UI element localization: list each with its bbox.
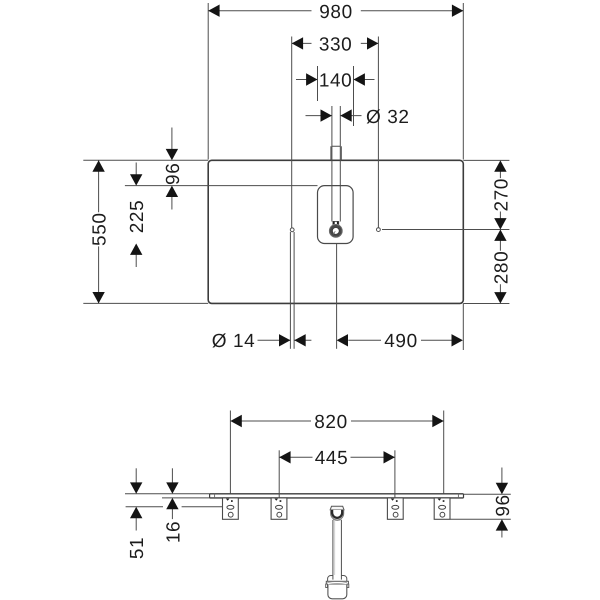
dim 96 top-left tail bottom	[171, 196, 173, 209]
basin cut-out	[318, 186, 354, 244]
dim 225 arrow bottom	[130, 244, 142, 255]
drain tab	[333, 222, 339, 226]
plate right end tick	[457, 494, 459, 498]
ext line basin top to left	[125, 185, 318, 187]
dim 96 top-left arrow bottom	[166, 186, 178, 197]
pipe coupling	[331, 146, 341, 160]
right edge extension down	[462, 304, 464, 351]
trap tab left	[326, 584, 328, 587]
dim 330 arrow right	[367, 37, 378, 49]
dim 140 arrow right	[354, 73, 365, 85]
dim 225 tail top	[135, 163, 137, 176]
svg-text:Ø 14: Ø 14	[212, 331, 256, 352]
dim 16 arrow bottom	[166, 498, 178, 509]
svg-text:96: 96	[163, 163, 184, 185]
dim D14 arrow left	[279, 334, 290, 346]
svg-text:270: 270	[491, 178, 512, 212]
countertop top-view outline	[208, 160, 463, 303]
supply pipe right line	[339, 106, 341, 222]
svg-text:16: 16	[164, 521, 185, 543]
ext line drain level to right	[382, 229, 509, 231]
dim D14 extension left	[289, 232, 291, 349]
bracket 4	[434, 498, 450, 519]
trap rim band	[326, 581, 348, 585]
dim 96 right tail top	[501, 468, 503, 484]
dim 820 extension right	[443, 411, 445, 494]
side-view plate top edge	[210, 493, 464, 495]
ext line countertop bottom to left	[83, 302, 208, 304]
drain inner hole	[332, 227, 339, 234]
dim 96 top-left tail top	[171, 128, 173, 150]
dim D32 tail right	[340, 115, 361, 117]
bracket 3	[387, 498, 403, 519]
dim 820 line	[230, 420, 443, 422]
drain flange bar	[330, 506, 344, 510]
dim 445 extension right	[394, 450, 396, 497]
supply pipe left line	[331, 106, 333, 222]
svg-text:330: 330	[319, 35, 353, 56]
plate right end cap	[463, 494, 465, 498]
svg-text:820: 820	[314, 412, 348, 433]
drain lever slot	[333, 231, 335, 234]
svg-text:140: 140	[319, 71, 353, 92]
dim 140 tail left	[296, 79, 318, 81]
drain outer circle	[329, 225, 342, 238]
trap tab right	[347, 584, 349, 587]
dim 330 extension left	[291, 37, 293, 228]
dim D14 tail left	[258, 339, 291, 341]
drain ring	[331, 226, 341, 236]
dim 820 extension left	[229, 411, 231, 494]
dim 140 extension right	[353, 66, 355, 126]
dim 550 arrow top	[92, 160, 104, 171]
dim 270-280 line	[499, 171, 501, 293]
dim 445 arrow right	[384, 451, 395, 463]
dim D32 arrow right	[340, 109, 351, 121]
dim D14 extension right	[293, 232, 295, 349]
hole D14	[290, 228, 294, 232]
dim 96 right arrow top	[496, 483, 508, 494]
drain pipe left	[332, 520, 334, 580]
plate left end tick	[214, 494, 216, 498]
plate left end cap	[209, 494, 211, 498]
drain clamp lip	[333, 519, 342, 520]
drain clamp outer	[331, 510, 344, 520]
dim 980 arrow right	[452, 5, 463, 17]
side-view plate bottom edge	[210, 497, 464, 499]
svg-text:550: 550	[90, 212, 111, 246]
dim 140 arrow left	[306, 73, 317, 85]
dim 16 tail top	[171, 468, 173, 483]
svg-text:96: 96	[493, 494, 514, 516]
dim 490 arrow right	[452, 334, 463, 346]
ext plate top to right	[464, 493, 511, 495]
dim 980 extension right	[462, 3, 464, 160]
ext bracket bottom to right	[451, 518, 511, 520]
dim 280 arrow bottom	[494, 292, 506, 303]
dim 270 arrow top	[494, 160, 506, 171]
dim 820 arrow left	[230, 415, 241, 427]
svg-text:490: 490	[384, 331, 418, 352]
dim 445 extension left	[278, 450, 280, 497]
dim 980 extension left	[207, 3, 209, 160]
dim D14 tail right	[294, 339, 311, 341]
dim 225 tail bottom	[135, 254, 137, 267]
bracket 1	[223, 498, 239, 519]
dim 51 tail top	[135, 468, 137, 483]
ext line countertop top to left	[83, 159, 208, 161]
ext bracket slot level to left	[126, 506, 223, 508]
node right hole	[377, 228, 381, 232]
dim 140 extension left	[317, 66, 319, 101]
ext line countertop top to right	[463, 159, 509, 161]
dim 980 line	[208, 10, 463, 12]
dim 96 right arrow bottom	[496, 519, 508, 530]
drain centerline down	[336, 244, 338, 349]
dim 96 top-left arrow top	[166, 149, 178, 160]
dim 445 line	[279, 456, 395, 458]
dim D14 arrow right	[294, 334, 305, 346]
dim 490 arrow left	[337, 334, 348, 346]
drain clamp ring	[332, 510, 342, 518]
trap cup	[328, 585, 347, 599]
drain pipe shading	[334, 521, 336, 575]
dim 330 line	[292, 42, 379, 44]
bracket 2	[271, 498, 287, 519]
dim D32 arrow left	[321, 109, 332, 121]
svg-text:445: 445	[315, 448, 349, 469]
dim 140 tail right	[354, 79, 375, 81]
dim 96 right tail bottom	[501, 530, 503, 538]
dim 270 arrow middle	[494, 218, 506, 229]
svg-text:Ø 32: Ø 32	[366, 107, 410, 128]
dim 51 arrow top	[130, 482, 142, 493]
dim 280 arrow middle	[494, 230, 506, 241]
dim 820 arrow right	[432, 415, 443, 427]
trap shoulder	[328, 576, 347, 582]
dim 550 arrow bottom	[92, 292, 104, 303]
dim 330 arrow left	[292, 37, 303, 49]
dim 330 extension right	[377, 37, 379, 228]
dim 51 tail bottom	[135, 517, 137, 530]
dim D32 tail left	[306, 115, 332, 117]
svg-text:280: 280	[491, 251, 512, 285]
svg-text:225: 225	[127, 200, 148, 234]
ext plate bottom to left	[162, 497, 210, 499]
dim 16 tail bottom	[171, 508, 173, 519]
dim 550 line	[98, 160, 100, 303]
dim 51 arrow bottom	[130, 507, 142, 518]
dim 490 line	[348, 339, 453, 341]
svg-text:51: 51	[127, 537, 148, 559]
svg-text:980: 980	[319, 2, 353, 23]
trap rim curve	[327, 582, 347, 583]
dim 445 arrow left	[279, 451, 290, 463]
ext line countertop bottom to right	[463, 303, 509, 305]
ext plate top to left	[125, 493, 210, 495]
drain pipe right	[340, 520, 342, 580]
dim 980 arrow left	[208, 5, 219, 17]
dim 225 arrow top	[130, 174, 142, 185]
dim 16 arrow top	[166, 482, 178, 493]
